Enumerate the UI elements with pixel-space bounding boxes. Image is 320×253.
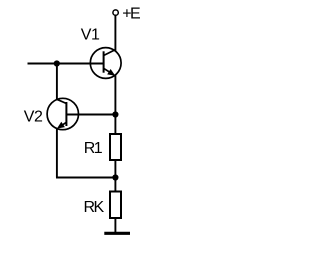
svg-text:RK: RK	[84, 199, 105, 216]
svg-text:V1: V1	[81, 27, 100, 44]
svg-text:R1: R1	[84, 140, 103, 157]
svg-text:V2: V2	[24, 109, 43, 126]
svg-text:+E: +E	[122, 6, 140, 23]
